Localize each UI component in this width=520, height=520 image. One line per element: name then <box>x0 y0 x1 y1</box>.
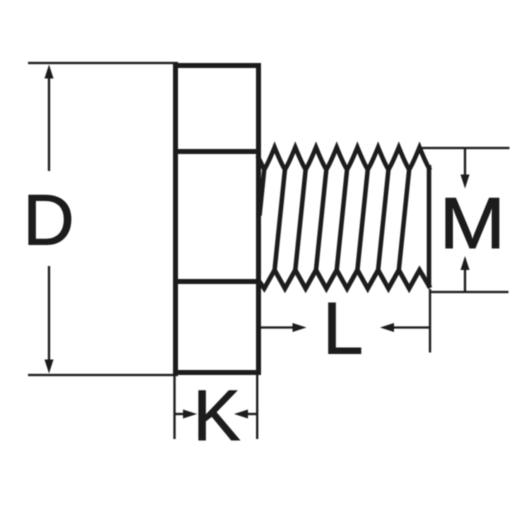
dimension line D upper segment <box>48 76 50 171</box>
L arrow left (points right) <box>259 326 294 328</box>
K arrow left <box>175 413 185 415</box>
svg-text:M: M <box>439 184 505 264</box>
L arrow right (points left) <box>394 326 431 328</box>
thread flank stem 7 <box>378 170 388 271</box>
thread flank stem 1 <box>260 170 265 216</box>
dimension line D lower segment <box>48 266 50 360</box>
arrowhead D up <box>45 65 54 79</box>
head facet line lower <box>174 279 259 284</box>
thread end face <box>427 165 432 288</box>
extension line K left <box>173 375 175 439</box>
svg-text:L: L <box>323 289 364 370</box>
extension line K right <box>256 375 258 439</box>
thread flank stem 6 <box>357 170 367 271</box>
extension line bottom (D) <box>28 374 178 376</box>
thread flank stem 2 <box>275 170 285 271</box>
K arrow right <box>248 413 257 415</box>
thread top crest zigzag <box>258 147 431 170</box>
extension line L right <box>429 289 431 353</box>
extension line M top <box>420 147 510 149</box>
thread flank stem 4 <box>316 170 326 271</box>
thread bottom crest zigzag <box>258 270 431 289</box>
bolt head outline <box>176 66 259 373</box>
svg-text:K: K <box>193 377 240 456</box>
arrowhead D down <box>45 360 54 374</box>
M arrow upper (points down) <box>464 148 466 175</box>
extension line M bottom <box>429 291 509 293</box>
thread flank stem 3 <box>295 170 305 271</box>
thread flank stem 5 <box>337 170 347 271</box>
thread flank stem 8 <box>399 170 409 271</box>
extension line top (D) <box>28 62 178 64</box>
M arrow lower (points up) <box>464 269 466 292</box>
svg-text:D: D <box>23 182 74 261</box>
head facet line upper <box>174 149 259 154</box>
